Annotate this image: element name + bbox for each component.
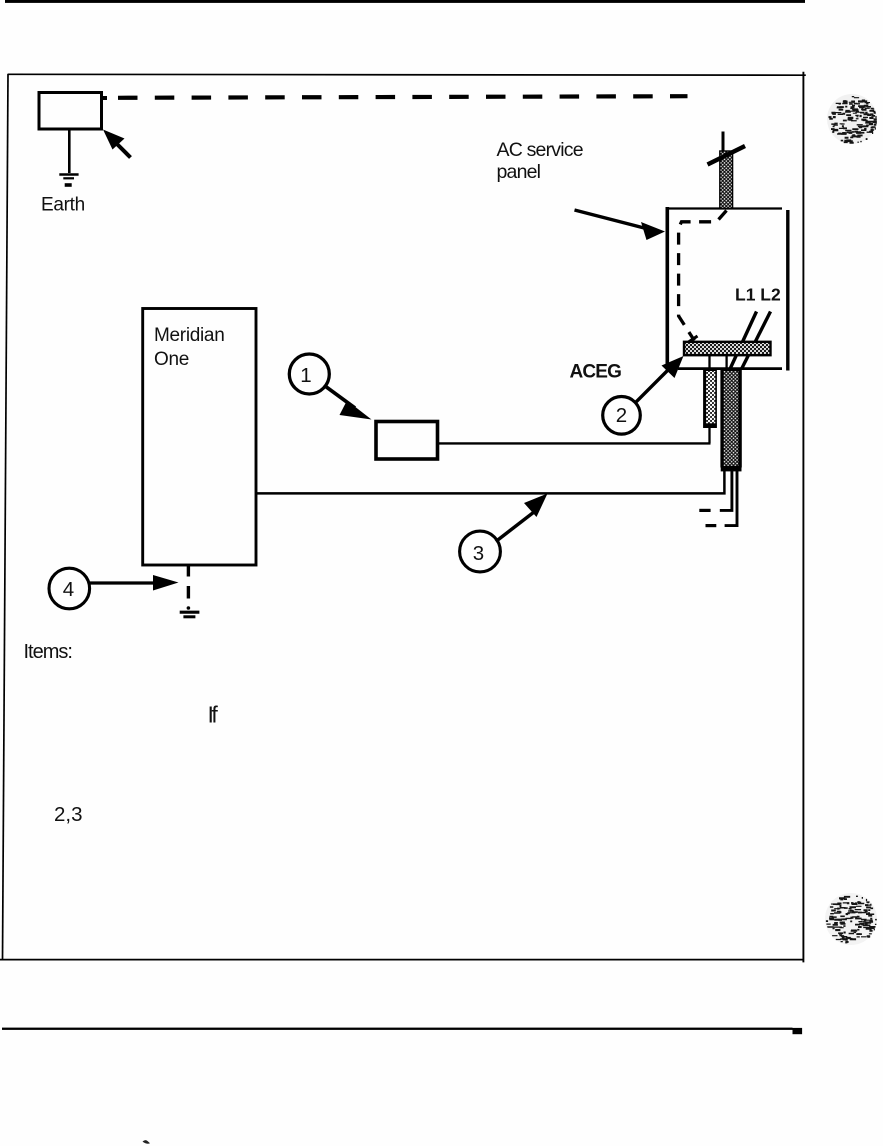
dashed ground lead under Meridian One	[187, 566, 190, 599]
right feeder conduit	[721, 370, 742, 471]
ground electrode box (top left)	[39, 93, 102, 130]
wire from item-1 box to ACEG conduit	[438, 442, 711, 444]
svg-text:2,3: 2,3	[54, 803, 83, 826]
svg-text:4: 4	[63, 578, 74, 601]
svg-text:Items:: Items:	[24, 641, 72, 663]
svg-text:AC service: AC service	[497, 139, 583, 161]
arrow to AC service panel	[575, 210, 666, 240]
neutral stub from bus bar to panel bottom	[725, 355, 727, 370]
stray pen mark bottom	[143, 1140, 151, 1144]
svg-text:2: 2	[616, 404, 627, 427]
Meridian One cabinet	[143, 309, 256, 566]
ACEG wire from bus bar down to item-1 wire	[708, 355, 710, 443]
L1 feeder lead	[730, 312, 757, 370]
svg-text:ACEG: ACEG	[570, 362, 622, 383]
dashed ground path inside panel	[679, 211, 727, 341]
callout circle 1	[289, 354, 371, 420]
page header black bar	[5, 0, 805, 3]
service entrance conduit above panel	[708, 132, 746, 209]
left conduit (ACEG conduit)	[703, 370, 716, 427]
callout circle 2	[603, 356, 684, 434]
svg-text:3: 3	[473, 542, 484, 565]
svg-text:One: One	[154, 349, 189, 370]
callout circle 4	[49, 568, 179, 609]
hole punch mark (top right)	[827, 94, 877, 144]
svg-text:Earth: Earth	[41, 195, 85, 216]
svg-text:L1 L2: L1 L2	[735, 285, 781, 305]
AC service panel enclosure	[666, 207, 788, 371]
callout circle 3	[460, 494, 548, 572]
footer end square	[793, 1028, 803, 1034]
svg-text:panel: panel	[497, 161, 541, 183]
tick at top of ACEG bus	[689, 336, 698, 342]
hole punch mark (bottom right)	[825, 893, 877, 945]
L2 feeder lead	[742, 312, 771, 370]
arrow pointing to ground electrode box	[103, 130, 131, 158]
ground symbol under Meridian One	[180, 606, 200, 617]
ACEG bus bar	[684, 342, 771, 355]
diagram frame border	[0, 72, 806, 963]
svg-text:Meridian: Meridian	[154, 325, 224, 346]
item 1 junction box	[376, 422, 438, 460]
svg-text:If: If	[208, 702, 219, 728]
footer rule	[2, 1028, 793, 1030]
earth ground symbol under box	[59, 129, 78, 185]
dashed bonding conductor wire (top)	[102, 96, 107, 100]
feeder wires exiting conduit bottom	[699, 471, 737, 526]
item 3 ground wire from Meridian One to feeder conduit	[257, 471, 725, 494]
svg-text:1: 1	[300, 364, 311, 387]
